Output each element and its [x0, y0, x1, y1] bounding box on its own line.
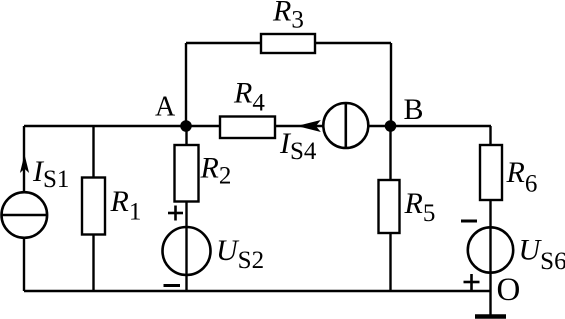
svg-text:B: B [404, 93, 424, 126]
svg-text:A: A [155, 92, 176, 123]
svg-text:O: O [497, 272, 521, 308]
